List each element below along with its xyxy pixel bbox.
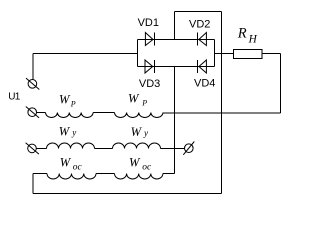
wire: right edge vertical [280,54,282,114]
svg-text:P: P [141,98,147,107]
wire: bridge top tap vertical [174,12,176,40]
svg-text:y: y [143,128,148,138]
svg-text:W: W [60,155,72,169]
diode VD4 [198,60,207,73]
terminal XS4 (control input right, circle with slash) [183,142,194,155]
wire: bridge bottom tap vertical down to W_oc [174,67,176,174]
diode VD1 [145,33,154,46]
wire: W_oc right lead to bottom tap vertical [163,173,175,175]
inductor W_P right winding [115,113,164,118]
wire: bridge output to load [215,53,234,55]
wire: upper input horizontal to bridge left node [33,53,138,55]
svg-text:W: W [131,125,143,139]
wire: between W_P windings [93,112,114,114]
wire: W_oc left end vertical [32,174,34,194]
wire: bottom loop horizontal [33,193,222,195]
wire: terminal to W_P winding [37,112,46,114]
terminal XS3 (control input left, circle with slash) [26,143,39,154]
wire: terminal to W_y winding [37,148,47,150]
wire: right mid vertical (top loop down to bottom loop) [221,12,223,194]
inductor W_y right winding [113,143,161,149]
svg-text:R: R [237,25,247,41]
inductor W_y left winding [47,143,95,149]
inductor W_P left winding [46,113,94,118]
wire: load to right edge [262,53,281,55]
wire: W_oc left lead [33,173,47,175]
resistor R_H [234,50,263,59]
svg-text:P: P [70,100,76,109]
inductor W_oc left winding [47,174,96,180]
bridge bottom rail [138,66,215,68]
terminal XS2 (U1 lower, circle with slash) [26,107,39,118]
svg-text:W: W [128,92,140,106]
svg-text:oc: oc [142,163,152,173]
svg-text:VD4: VD4 [194,78,215,90]
svg-text:VD2: VD2 [189,18,210,30]
svg-text:U1: U1 [8,92,20,103]
svg-text:W: W [129,155,141,169]
wire: U1 upper lead vertical [32,54,34,80]
svg-text:VD3: VD3 [139,78,160,90]
svg-text:oc: oc [73,163,83,173]
svg-text:y: y [71,128,76,138]
terminal XS1 (U1 upper, circle with slash) [26,78,39,89]
wire: W_y right winding to terminal [161,148,185,150]
svg-text:W: W [59,93,71,107]
diode VD3 [145,60,155,73]
wire: top loop horizontal [175,11,222,13]
bridge top rail [138,39,215,41]
wire: load return horizontal to W_P right end [163,112,281,114]
diode VD2 [198,33,207,46]
wire: between W_oc windings [96,173,115,175]
svg-text:H: H [248,33,258,45]
bridge left edge [137,40,139,67]
wire: between W_y windings [95,148,113,150]
svg-text:W: W [59,124,71,138]
svg-text:VD1: VD1 [138,17,159,29]
inductor W_oc right winding [115,174,163,180]
bridge right edge [214,40,216,67]
